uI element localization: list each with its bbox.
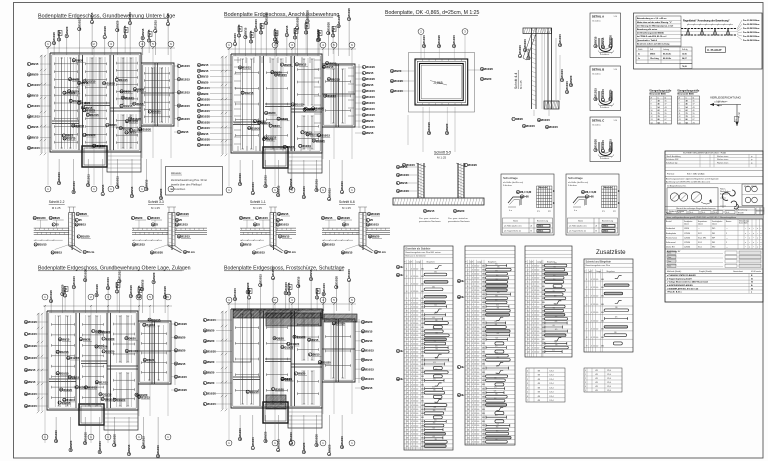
svg-text:70: 70 [658, 113, 660, 115]
svg-text:46: 46 [658, 103, 660, 106]
svg-text:Ø8/15: Ø8/15 [309, 269, 313, 277]
svg-text:94: 94 [686, 121, 688, 124]
svg-text:Ø8/15: Ø8/15 [273, 124, 281, 128]
svg-text:Ø10/20: Ø10/20 [166, 13, 170, 22]
svg-text:Kellerwand: Kellerwand [666, 241, 675, 244]
svg-text:Übergreifungsstöße: Übergreifungsstöße [678, 90, 701, 93]
svg-text:Ø8/20: Ø8/20 [246, 282, 250, 290]
svg-text:Ø8/20: Ø8/20 [243, 216, 251, 220]
svg-text:Schnitt 5-5: Schnitt 5-5 [434, 151, 451, 155]
svg-text:12: 12 [651, 116, 653, 118]
svg-text:12: 12 [593, 279, 595, 281]
svg-text:Ø10/15: Ø10/15 [541, 118, 550, 122]
svg-text:als Tragrichtliche als: als Tragrichtliche als [504, 230, 521, 233]
svg-text:36: 36 [406, 425, 408, 427]
svg-text:Ø10/20: Ø10/20 [37, 216, 46, 220]
svg-text:Ø10/20: Ø10/20 [275, 387, 284, 391]
svg-text:4: 4 [406, 291, 407, 293]
svg-text:4: 4 [411, 364, 412, 366]
svg-text:4: 4 [411, 417, 412, 419]
svg-text:4: 4 [532, 327, 533, 329]
svg-text:Ø10/15: Ø10/15 [326, 243, 335, 247]
svg-text:4: 4 [472, 429, 473, 431]
svg-text:als Hülle (d=45± cm): als Hülle (d=45± cm) [568, 182, 588, 184]
svg-text:19: 19 [406, 356, 408, 358]
svg-text:M 1:25: M 1:25 [342, 206, 351, 210]
svg-text:Ø8/15: Ø8/15 [282, 235, 290, 239]
svg-text:Betonstahl B500: Betonstahl B500 [650, 92, 667, 95]
svg-text:Ø12/15: Ø12/15 [133, 128, 142, 132]
svg-text:680: 680 [421, 413, 424, 415]
svg-text:380: 380 [554, 295, 557, 297]
svg-text:4: 4 [411, 393, 412, 395]
svg-text:680: 680 [482, 290, 485, 292]
svg-text:Grundriss: Grundriss [592, 74, 601, 76]
svg-text:380: 380 [435, 332, 438, 334]
svg-text:380: 380 [496, 427, 499, 429]
svg-text:6,0: 6,0 [537, 310, 539, 312]
svg-text:4: 4 [472, 290, 473, 292]
svg-text:Ø8/20: Ø8/20 [128, 336, 136, 340]
svg-text:380: 380 [434, 439, 437, 441]
svg-text:44: 44 [467, 442, 469, 444]
svg-text:Ø12/15: Ø12/15 [366, 95, 375, 99]
svg-text:Ø10/15: Ø10/15 [254, 19, 258, 28]
svg-text:Ø10/20: Ø10/20 [201, 138, 210, 142]
svg-text:12: 12 [474, 282, 476, 284]
svg-text:6,0: 6,0 [416, 319, 418, 321]
svg-text:Ø10/20: Ø10/20 [264, 12, 268, 21]
svg-text:12: 12 [413, 425, 415, 427]
svg-text:2: 2 [586, 287, 587, 289]
svg-text:380: 380 [433, 423, 436, 425]
svg-text:625: 625 [497, 333, 500, 335]
svg-text:Ø10/20: Ø10/20 [129, 120, 138, 124]
svg-text:DETAIL A: DETAIL A [592, 15, 604, 19]
svg-text:Ø10/15: Ø10/15 [251, 182, 255, 191]
svg-text:12: 12 [474, 442, 476, 444]
svg-text:Bezeichnung: Bezeichnung [537, 221, 548, 223]
svg-text:4: 4 [411, 347, 412, 349]
svg-text:Ø10/20: Ø10/20 [295, 17, 299, 26]
svg-text:680: 680 [482, 294, 485, 296]
svg-text:680: 680 [421, 331, 424, 333]
svg-text:28: 28 [467, 376, 469, 378]
svg-text:4: 4 [472, 306, 473, 308]
svg-text:50 cm: 50 cm [288, 250, 296, 254]
svg-text:Ø8: Ø8 [538, 383, 540, 385]
svg-text:380: 380 [553, 275, 556, 277]
svg-text:680: 680 [421, 380, 424, 382]
svg-text:Ø8/15: Ø8/15 [650, 54, 655, 56]
svg-text:20: 20 [467, 343, 469, 345]
svg-text:38: 38 [686, 101, 688, 103]
svg-text:25: 25 [346, 223, 349, 227]
svg-text:6,0: 6,0 [416, 372, 418, 374]
svg-text:Ø12/15: Ø12/15 [123, 25, 127, 34]
svg-text:Projekt (Statik):: Projekt (Statik): [699, 270, 712, 273]
svg-text:6,0: 6,0 [537, 274, 539, 276]
svg-text:625: 625 [494, 391, 497, 393]
svg-text:20: 20 [406, 360, 408, 362]
svg-text:6,0: 6,0 [596, 304, 598, 306]
svg-text:Ø8: Ø8 [538, 379, 540, 381]
svg-text:4: 4 [472, 265, 473, 267]
svg-text:625: 625 [433, 436, 436, 438]
svg-text:ls: ls [658, 97, 659, 99]
svg-text:12: 12 [413, 347, 415, 349]
svg-text:Querschnitt n. Tafel A: Querschnitt n. Tafel A [637, 39, 658, 42]
svg-text:12: 12 [474, 409, 476, 411]
svg-text:125,4: 125,4 [549, 379, 553, 381]
svg-text:12: 12 [474, 310, 476, 312]
svg-text:7: 7 [586, 329, 587, 331]
svg-text:Biegeform: Biegeform [488, 262, 497, 264]
svg-text:Ø12/15: Ø12/15 [179, 223, 188, 227]
svg-text:380: 380 [554, 287, 557, 289]
svg-text:4: 4 [472, 388, 473, 390]
svg-text:680: 680 [421, 302, 424, 304]
svg-text:19: 19 [467, 339, 469, 341]
svg-text:Ø8/20: Ø8/20 [285, 377, 293, 381]
svg-text:Schutzlage: Schutzlage [568, 176, 583, 180]
svg-text:4: 4 [591, 345, 592, 347]
svg-text:Ø10/20: Ø10/20 [306, 10, 310, 19]
svg-text:680: 680 [421, 442, 424, 444]
svg-text:6,0: 6,0 [477, 278, 479, 280]
svg-text:125,4: 125,4 [549, 383, 553, 385]
svg-text:x: x [761, 233, 762, 235]
svg-text:1: 1 [527, 265, 528, 267]
svg-text:34: 34 [467, 401, 469, 403]
svg-text:5: 5 [406, 298, 407, 300]
svg-text:Ausführung nach DIN EN 1992 un: Ausführung nach DIN EN 1992 und DIN 488,… [666, 180, 711, 183]
svg-text:94: 94 [658, 121, 660, 124]
svg-text:12: 12 [593, 337, 595, 339]
svg-text:4: 4 [591, 337, 592, 339]
svg-text:Ø12/15: Ø12/15 [594, 88, 598, 97]
svg-text:Ø8/15: Ø8/15 [365, 358, 373, 362]
svg-text:4: 4 [411, 442, 412, 444]
svg-text:4: 4 [472, 298, 473, 300]
svg-text:Ø8/15: Ø8/15 [201, 63, 209, 67]
svg-text:11: 11 [651, 113, 653, 115]
svg-text:Ø8/15: Ø8/15 [326, 65, 334, 69]
svg-text:380: 380 [495, 299, 498, 301]
svg-text:380: 380 [554, 263, 557, 265]
svg-text:4: 4 [532, 294, 533, 296]
svg-text:12: 12 [474, 380, 476, 382]
svg-text:6,0: 6,0 [477, 290, 479, 292]
svg-text:12: 12 [413, 356, 415, 358]
svg-text:680: 680 [421, 269, 424, 271]
svg-text:Ø10/20: Ø10/20 [103, 26, 107, 35]
svg-text:4: 4 [411, 311, 412, 313]
svg-text:Ø8/20: Ø8/20 [80, 212, 88, 216]
svg-text:680: 680 [421, 421, 424, 423]
svg-text:5: 5 [467, 282, 468, 284]
svg-text:680: 680 [482, 397, 485, 399]
svg-text:625: 625 [615, 317, 618, 319]
svg-text:12: 12 [413, 339, 415, 341]
svg-text:4: 4 [472, 417, 473, 419]
svg-text:625: 625 [555, 341, 558, 343]
svg-text:625: 625 [434, 313, 437, 315]
svg-text:5: 5 [527, 392, 528, 394]
svg-text:38: 38 [406, 434, 408, 436]
svg-text:15: 15 [406, 339, 408, 341]
svg-text:78: 78 [686, 116, 688, 118]
svg-text:Ø12/15: Ø12/15 [99, 381, 108, 385]
svg-text:13: 13 [406, 331, 408, 333]
svg-text:4: 4 [411, 401, 412, 403]
svg-text:6,0: 6,0 [416, 446, 418, 448]
svg-text:12: 12 [593, 296, 595, 298]
svg-text:6,0: 6,0 [537, 335, 539, 337]
svg-text:380: 380 [495, 279, 498, 281]
svg-text:Ø8/20: Ø8/20 [259, 23, 263, 31]
svg-text:4: 4 [472, 433, 473, 435]
svg-text:680: 680 [482, 343, 485, 345]
svg-text:a PLANUNG STATIK RO.BAUER: a PLANUNG STATIK RO.BAUER [667, 274, 696, 277]
svg-text:Ø8/20: Ø8/20 [201, 92, 209, 96]
svg-text:Ø8/15: Ø8/15 [244, 243, 252, 247]
svg-text:4: 4 [472, 380, 473, 382]
svg-text:12: 12 [413, 360, 415, 362]
svg-text:12: 12 [474, 425, 476, 427]
svg-text:Ø8/20: Ø8/20 [83, 338, 91, 342]
svg-text:Ø8/20: Ø8/20 [281, 117, 289, 121]
svg-text:680: 680 [421, 397, 424, 399]
svg-text:d AUSFÜHRUNGSPLANUNG: d AUSFÜHRUNGSPLANUNG [667, 284, 693, 287]
svg-text:12: 12 [413, 421, 415, 423]
svg-text:6,0: 6,0 [477, 306, 479, 308]
svg-text:0: 0 [585, 370, 586, 372]
svg-text:Ø10/15: Ø10/15 [523, 39, 527, 48]
svg-text:Ø10/20: Ø10/20 [178, 388, 187, 392]
svg-text:22: 22 [467, 351, 469, 353]
svg-text:6,0: 6,0 [537, 302, 539, 304]
svg-text:73: 73 [665, 122, 667, 124]
svg-text:Ø10/15: Ø10/15 [31, 146, 40, 150]
svg-text:Ø12/15: Ø12/15 [201, 103, 210, 107]
svg-text:680: 680 [482, 286, 485, 288]
svg-text:Ø12/15: Ø12/15 [366, 125, 375, 129]
svg-text:Ø12/15: Ø12/15 [106, 81, 115, 85]
svg-text:6,0: 6,0 [416, 405, 418, 407]
svg-text:4: 4 [472, 421, 473, 423]
svg-text:Ø10/20: Ø10/20 [28, 320, 37, 324]
svg-text:380: 380 [495, 324, 498, 326]
svg-text:4: 4 [411, 327, 412, 329]
svg-text:125,4: 125,4 [549, 387, 553, 389]
svg-text:6,0: 6,0 [416, 276, 418, 278]
svg-text:Ø10/15: Ø10/15 [601, 89, 605, 98]
svg-text:37: 37 [467, 413, 469, 415]
svg-text:6,0: 6,0 [416, 327, 418, 329]
svg-text:16: 16 [467, 327, 469, 329]
svg-text:6,0: 6,0 [477, 380, 479, 382]
svg-text:4: 4 [532, 351, 533, 353]
svg-text:4: 4 [472, 269, 473, 271]
svg-text:12: 12 [474, 306, 476, 308]
svg-text:50: 50 [751, 288, 753, 290]
svg-text:12: 12 [406, 327, 408, 329]
svg-text:4: 4 [411, 397, 412, 399]
svg-text:6,0: 6,0 [477, 421, 479, 423]
svg-text:l=80: l=80 [589, 196, 594, 199]
svg-text:6: 6 [467, 286, 468, 288]
svg-text:M 1:25: M 1:25 [52, 206, 61, 210]
svg-text:1.600 obv cm: 1.600 obv cm [716, 101, 728, 103]
svg-text:12: 12 [413, 283, 415, 285]
svg-text:6,0: 6,0 [416, 356, 418, 358]
svg-text:680: 680 [482, 306, 485, 308]
svg-text:680: 680 [421, 438, 424, 440]
svg-text:13: 13 [527, 315, 529, 317]
svg-text:Ø8/20: Ø8/20 [315, 288, 319, 296]
svg-text:gesonderter Nachweis: gesonderter Nachweis [419, 220, 442, 223]
svg-text:Ø8/20: Ø8/20 [72, 78, 80, 82]
svg-text:Ø10/15: Ø10/15 [560, 69, 564, 78]
svg-text:12: 12 [593, 345, 595, 347]
svg-text:12: 12 [593, 329, 595, 331]
svg-text:9: 9 [467, 298, 468, 300]
svg-text:6,0: 6,0 [477, 425, 479, 427]
svg-text:680: 680 [482, 282, 485, 284]
svg-text:6,0: 6,0 [537, 351, 539, 353]
svg-text:680: 680 [482, 265, 485, 267]
svg-text:12: 12 [413, 434, 415, 436]
svg-text:12: 12 [474, 392, 476, 394]
svg-text:4: 4 [532, 290, 533, 292]
svg-text:12: 12 [474, 347, 476, 349]
svg-text:33: 33 [467, 397, 469, 399]
svg-text:4: 4 [532, 282, 533, 284]
svg-text:Ø10/15: Ø10/15 [96, 144, 105, 148]
svg-text:50 cm: 50 cm [378, 250, 386, 254]
svg-text:4: 4 [411, 429, 412, 431]
svg-text:Ø8/20: Ø8/20 [207, 371, 215, 375]
svg-text:625: 625 [495, 415, 498, 417]
svg-text:380: 380 [496, 275, 499, 277]
svg-text:4: 4 [472, 384, 473, 386]
svg-text:12: 12 [534, 310, 536, 312]
svg-text:Ø10/20: Ø10/20 [327, 22, 331, 31]
svg-text:Ø8/20: Ø8/20 [61, 284, 65, 292]
svg-text:Ø10/15: Ø10/15 [28, 404, 37, 408]
svg-text:4: 4 [472, 302, 473, 304]
svg-text:Pos.31 Ø8/15 Bew.: Pos.31 Ø8/15 Bew. [743, 20, 760, 22]
svg-text:Ø8/20: Ø8/20 [372, 235, 380, 239]
svg-text:Ø8/15: Ø8/15 [366, 131, 374, 135]
svg-text:0: 0 [527, 370, 528, 372]
svg-text:6,0: 6,0 [477, 413, 479, 415]
svg-text:4: 4 [586, 304, 587, 306]
svg-text:12: 12 [474, 421, 476, 423]
svg-text:4: 4 [472, 339, 473, 341]
svg-text:380: 380 [553, 267, 556, 269]
svg-text:380: 380 [496, 431, 499, 433]
svg-text:625: 625 [495, 346, 498, 348]
svg-text:Schnitt 4-4: Schnitt 4-4 [514, 73, 518, 89]
svg-text:12: 12 [534, 274, 536, 276]
svg-text:12: 12 [474, 265, 476, 267]
svg-text:625: 625 [433, 428, 436, 430]
svg-text:6,0: 6,0 [416, 306, 418, 308]
svg-text:Ø10/20: Ø10/20 [315, 107, 324, 111]
svg-text:10: 10 [679, 110, 681, 112]
svg-text:73: 73 [693, 122, 695, 124]
svg-text:Ø8/15: Ø8/15 [28, 380, 36, 384]
svg-text:680: 680 [421, 291, 424, 293]
svg-text:Ausführung: BV: Ausführung: BV [667, 250, 681, 253]
svg-text:4: 4 [591, 296, 592, 298]
svg-text:8: 8 [527, 294, 528, 296]
svg-text:6,0: 6,0 [477, 401, 479, 403]
svg-text:Ø10/20: Ø10/20 [201, 143, 210, 147]
svg-text:680: 680 [482, 331, 485, 333]
svg-text:6,0: 6,0 [416, 360, 418, 362]
svg-text:Ø10/15: Ø10/15 [78, 18, 82, 27]
svg-text:50 cm: 50 cm [187, 250, 195, 254]
svg-text:4: 4 [411, 372, 412, 374]
svg-text:6,0: 6,0 [416, 269, 418, 271]
svg-text:6,0: 6,0 [416, 339, 418, 341]
svg-text:380: 380 [435, 349, 438, 351]
svg-text:680: 680 [482, 401, 485, 403]
svg-text:Ø8/20: Ø8/20 [201, 80, 209, 84]
svg-text:12: 12 [474, 269, 476, 271]
svg-text:Bodenplatte: Bodenplatte [666, 232, 676, 235]
svg-text:anzuordnen: anzuordnen [171, 187, 186, 191]
svg-text:Sauberkeit: Sauberkeit [666, 227, 676, 230]
svg-text:12: 12 [534, 323, 536, 325]
svg-text:Matte oben auf der achse Übers: Matte oben auf der achse Überstg. "L" [637, 21, 672, 24]
svg-text:21: 21 [406, 364, 408, 366]
svg-text:680: 680 [482, 384, 485, 386]
svg-text:Ø8/15: Ø8/15 [527, 48, 531, 56]
svg-text:Ø10/20: Ø10/20 [180, 212, 189, 216]
svg-text:61: 61 [665, 116, 667, 118]
svg-text:37: 37 [406, 429, 408, 431]
svg-text:Sichtbeton SB2: Sichtbeton SB2 [666, 158, 678, 161]
svg-text:12: 12 [593, 312, 595, 314]
svg-text:4: 4 [472, 343, 473, 345]
svg-text:12: 12 [527, 310, 529, 312]
svg-text:Ø8/20: Ø8/20 [137, 88, 145, 92]
svg-text:680: 680 [421, 384, 424, 386]
svg-text:5: 5 [585, 390, 586, 392]
svg-text:Ø8/15: Ø8/15 [28, 368, 36, 372]
svg-text:Ø8/15: Ø8/15 [325, 216, 333, 220]
svg-text:6,0: 6,0 [416, 298, 418, 300]
svg-text:Ø8/20: Ø8/20 [105, 397, 113, 401]
svg-text:Ø8/15: Ø8/15 [141, 28, 145, 36]
svg-text:6,0: 6,0 [477, 429, 479, 431]
svg-text:380: 380 [494, 398, 497, 400]
svg-text:Flächen innen: Flächen innen [717, 162, 728, 164]
svg-text:12: 12 [474, 294, 476, 296]
svg-text:680: 680 [421, 434, 424, 436]
svg-text:Ø10/15: Ø10/15 [304, 21, 308, 30]
svg-text:6,0: 6,0 [416, 442, 418, 444]
svg-text:Ø10/15: Ø10/15 [366, 107, 375, 111]
svg-text:Ø8: Ø8 [538, 400, 540, 402]
svg-text:jeweils über den Pfeilkopf: jeweils über den Pfeilkopf [170, 182, 202, 186]
svg-text:4: 4 [472, 409, 473, 411]
svg-text:680: 680 [482, 409, 485, 411]
